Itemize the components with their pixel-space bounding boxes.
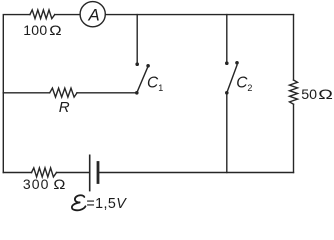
battery short plate bbox=[97, 163, 100, 183]
wire right edge upper bbox=[293, 15, 295, 80]
svg-text:100: 100 bbox=[23, 22, 47, 38]
node C1 lever tip bbox=[146, 64, 150, 68]
svg-text:50: 50 bbox=[301, 87, 317, 103]
label EMF value bbox=[72, 195, 127, 212]
wire right edge lower bbox=[293, 104, 295, 172]
node C2 pivot bbox=[225, 91, 229, 95]
wire bottom to battery bbox=[57, 172, 90, 174]
wire bottom right bbox=[98, 172, 294, 174]
svg-text:Ω: Ω bbox=[318, 86, 333, 102]
svg-text:Ω: Ω bbox=[53, 177, 65, 193]
wire C1 drop bbox=[136, 15, 138, 62]
wire top middle bbox=[55, 14, 294, 16]
svg-text:R: R bbox=[59, 99, 70, 116]
svg-text:300: 300 bbox=[23, 176, 50, 192]
wire middle left bbox=[3, 92, 49, 94]
battery long plate bbox=[89, 155, 91, 190]
svg-text:=1,5V: =1,5V bbox=[86, 196, 127, 212]
resistor R bbox=[50, 88, 77, 97]
node C1 pivot bbox=[135, 91, 139, 95]
resistor 100ohm bbox=[30, 10, 55, 19]
wire bottom left bbox=[3, 172, 31, 174]
svg-text:Ω: Ω bbox=[49, 23, 61, 39]
svg-text:A: A bbox=[88, 6, 100, 25]
node C2 lever tip bbox=[235, 61, 239, 65]
node C1 fixed contact bbox=[135, 62, 139, 66]
wire C2 drop bbox=[226, 15, 228, 62]
resistor 300ohm bbox=[32, 168, 57, 177]
switch C1 lever bbox=[137, 66, 148, 93]
script E glyph bbox=[72, 195, 86, 210]
resistor 50ohm bbox=[290, 80, 298, 104]
wire left edge bbox=[2, 93, 4, 173]
ammeter A1 bbox=[80, 2, 105, 27]
node C2 fixed contact bbox=[225, 61, 229, 65]
switch C2 lever bbox=[227, 65, 237, 93]
wire middle right bbox=[77, 92, 137, 94]
wire C2 lower bbox=[226, 93, 228, 173]
wire top-left segment bbox=[3, 15, 30, 93]
